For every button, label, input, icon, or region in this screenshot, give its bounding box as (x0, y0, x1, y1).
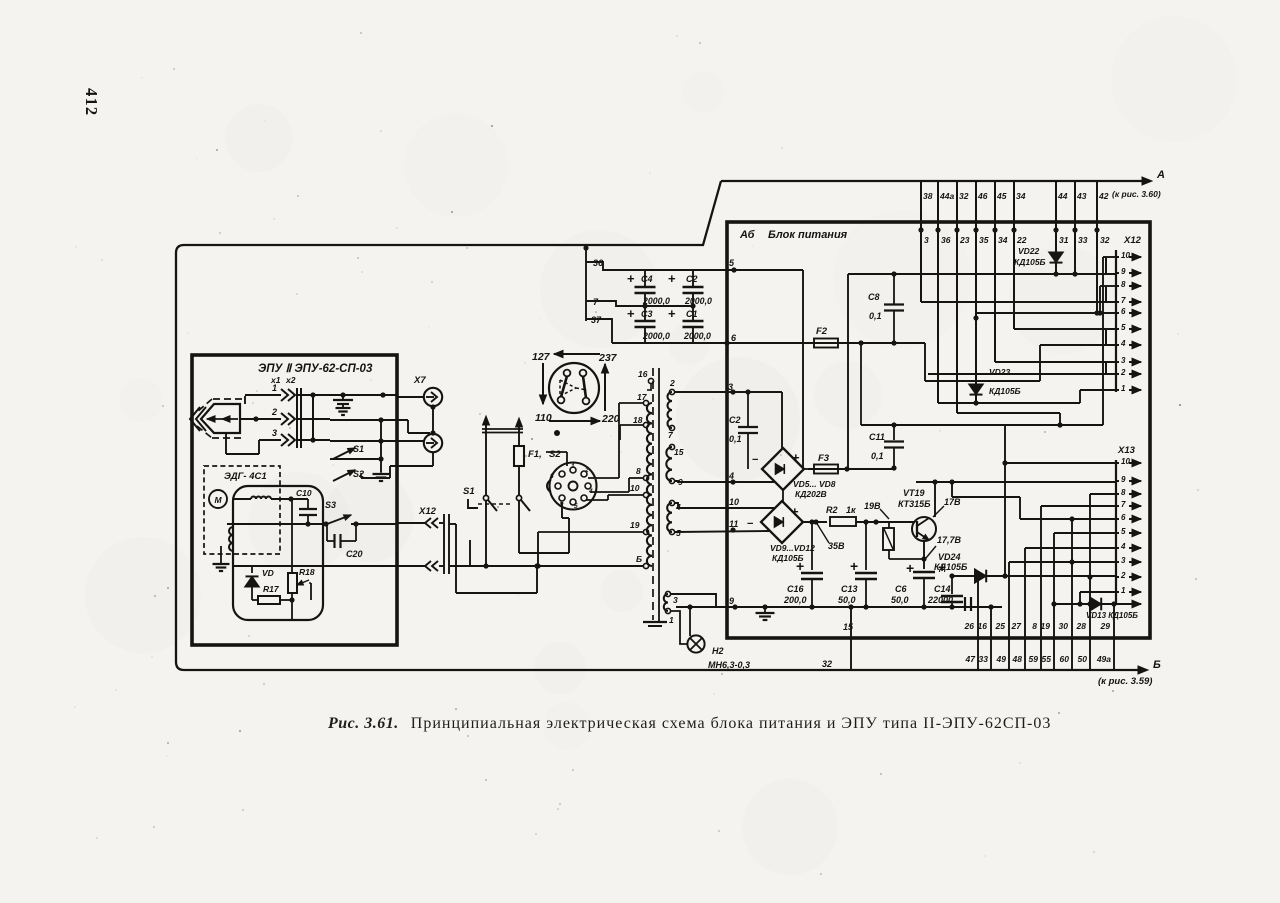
svg-text:Х13: Х13 (1117, 445, 1136, 456)
svg-text:42: 42 (1098, 191, 1109, 201)
svg-text:ЭДГ- 4С1: ЭДГ- 4С1 (224, 471, 267, 482)
svg-text:44: 44 (1057, 191, 1068, 201)
svg-text:4: 4 (1120, 542, 1126, 551)
svg-text:59: 59 (1029, 654, 1039, 664)
svg-text:х2: х2 (285, 375, 296, 385)
svg-text:10: 10 (630, 483, 640, 493)
svg-text:17В: 17В (944, 497, 961, 507)
svg-text:35В: 35В (828, 541, 845, 551)
svg-text:45: 45 (996, 191, 1007, 201)
svg-text:30: 30 (1059, 621, 1069, 631)
svg-text:+: + (938, 559, 946, 575)
svg-text:+: + (668, 271, 676, 286)
svg-text:34: 34 (1016, 191, 1026, 201)
svg-text:60: 60 (1060, 654, 1070, 664)
svg-text:КД202В: КД202В (795, 489, 827, 499)
svg-text:10: 10 (729, 497, 739, 507)
svg-text:50: 50 (1078, 654, 1088, 664)
svg-text:VT19: VT19 (903, 488, 925, 498)
svg-text:F3: F3 (818, 453, 830, 464)
svg-text:6: 6 (1121, 513, 1126, 522)
svg-text:49: 49 (996, 654, 1007, 664)
svg-text:27: 27 (1011, 621, 1023, 631)
svg-text:+: + (850, 558, 858, 574)
svg-text:48: 48 (1012, 654, 1023, 664)
svg-text:(к рис. 3.60): (к рис. 3.60) (1112, 189, 1161, 199)
svg-text:8: 8 (1121, 488, 1126, 497)
svg-text:34: 34 (998, 235, 1008, 245)
svg-text:9: 9 (1121, 267, 1126, 276)
svg-text:С14: С14 (934, 584, 951, 594)
svg-text:Б: Б (1153, 659, 1161, 671)
svg-text:19: 19 (1041, 621, 1051, 631)
svg-text:2: 2 (1120, 368, 1126, 377)
svg-text:50,0: 50,0 (838, 595, 856, 605)
svg-text:3: 3 (1121, 556, 1126, 565)
svg-text:8: 8 (1121, 280, 1126, 289)
svg-text:16: 16 (638, 369, 648, 379)
svg-text:+: + (668, 306, 676, 321)
svg-text:С13: С13 (841, 584, 858, 594)
svg-text:38: 38 (923, 191, 933, 201)
svg-text:25: 25 (995, 621, 1006, 631)
svg-text:17,7В: 17,7В (937, 535, 962, 545)
svg-text:8: 8 (1032, 621, 1037, 631)
svg-text:7: 7 (1121, 500, 1126, 509)
svg-text:10: 10 (1121, 457, 1130, 466)
svg-text:Х12: Х12 (418, 506, 437, 517)
svg-text:220: 220 (601, 413, 620, 425)
svg-text:8: 8 (636, 466, 641, 476)
svg-text:S1: S1 (463, 486, 475, 497)
svg-text:32: 32 (959, 191, 969, 201)
svg-text:2: 2 (584, 467, 589, 474)
svg-text:46: 46 (977, 191, 988, 201)
svg-text:F1,: F1, (528, 449, 542, 460)
svg-text:+: + (796, 558, 804, 574)
svg-text:6: 6 (1121, 307, 1126, 316)
svg-text:М: М (214, 495, 222, 505)
svg-text:С6: С6 (895, 584, 907, 594)
svg-text:R17: R17 (263, 584, 280, 594)
svg-text:5: 5 (1121, 323, 1126, 332)
svg-text:44а: 44а (939, 191, 954, 201)
svg-text:200,0: 200,0 (783, 595, 807, 605)
svg-text:2: 2 (1120, 571, 1126, 580)
svg-text:55: 55 (1042, 654, 1052, 664)
svg-text:1: 1 (1121, 586, 1126, 595)
svg-text:35: 35 (979, 235, 989, 245)
svg-text:3: 3 (1121, 356, 1126, 365)
svg-text:R2: R2 (826, 505, 838, 515)
svg-text:+: + (906, 560, 914, 576)
svg-text:127: 127 (532, 351, 551, 363)
svg-text:5: 5 (1121, 527, 1126, 536)
svg-text:28: 28 (1076, 621, 1087, 631)
svg-text:19В: 19В (864, 501, 881, 511)
svg-text:VD5... VD8: VD5... VD8 (793, 479, 836, 489)
svg-text:6: 6 (560, 500, 564, 507)
svg-text:КТ315Б: КТ315Б (898, 499, 931, 509)
svg-text:1: 1 (669, 615, 674, 625)
svg-text:9: 9 (1121, 475, 1126, 484)
svg-text:S2: S2 (549, 449, 561, 460)
svg-text:2000,0: 2000,0 (642, 331, 670, 341)
svg-text:Х7: Х7 (413, 375, 426, 386)
svg-text:412: 412 (82, 88, 101, 116)
svg-text:4: 4 (1120, 339, 1126, 348)
svg-text:0,1: 0,1 (871, 451, 884, 461)
svg-text:2: 2 (669, 378, 675, 388)
svg-text:110: 110 (535, 412, 552, 424)
svg-text:ЭПУ Ⅱ ЭПУ-62-СП-03: ЭПУ Ⅱ ЭПУ-62-СП-03 (258, 363, 373, 375)
svg-text:1: 1 (571, 463, 575, 470)
svg-text:F2: F2 (816, 326, 828, 337)
svg-text:VD9...VD12: VD9...VD12 (770, 543, 815, 553)
svg-text:19: 19 (630, 520, 640, 530)
svg-text:16: 16 (978, 621, 988, 631)
svg-text:2: 2 (271, 407, 277, 417)
svg-text:Х12: Х12 (1123, 235, 1142, 246)
svg-text:МН6,3-0,3: МН6,3-0,3 (708, 660, 750, 670)
svg-text:С2: С2 (686, 274, 698, 284)
svg-text:2000,0: 2000,0 (684, 296, 712, 306)
svg-text:−: − (747, 518, 753, 530)
svg-text:32: 32 (1100, 235, 1110, 245)
svg-text:С11: С11 (869, 432, 885, 442)
svg-text:С16: С16 (787, 584, 805, 594)
svg-text:29: 29 (1100, 621, 1111, 631)
svg-text:10: 10 (1121, 251, 1130, 260)
svg-text:26: 26 (964, 621, 975, 631)
svg-text:Н2: Н2 (712, 646, 724, 656)
svg-text:237: 237 (598, 352, 618, 364)
svg-text:С1: С1 (686, 309, 698, 319)
svg-text:1к: 1к (846, 505, 856, 515)
svg-text:+: + (791, 504, 799, 519)
svg-text:Аб: Аб (739, 229, 756, 241)
svg-text:31: 31 (1059, 235, 1069, 245)
svg-text:VD23: VD23 (989, 367, 1011, 377)
svg-text:7: 7 (1121, 296, 1126, 305)
svg-text:VD13 КД105Б: VD13 КД105Б (1086, 611, 1138, 620)
svg-text:Рис. 3.61. Принципиальная элек: Рис. 3.61. Принципиальная электрическая … (327, 715, 1051, 732)
svg-text:1: 1 (272, 383, 277, 393)
svg-text:9: 9 (729, 596, 734, 606)
svg-text:47: 47 (965, 654, 977, 664)
svg-text:А: А (1156, 169, 1165, 181)
svg-text:5: 5 (574, 503, 578, 510)
svg-text:33: 33 (979, 654, 989, 664)
svg-text:5: 5 (676, 528, 681, 538)
svg-text:3: 3 (272, 428, 277, 438)
svg-text:33: 33 (1078, 235, 1088, 245)
svg-text:Блок питания: Блок питания (768, 229, 848, 241)
svg-text:15: 15 (674, 447, 684, 457)
svg-text:15: 15 (843, 622, 854, 632)
svg-text:VD: VD (262, 568, 274, 578)
svg-text:КД105Б: КД105Б (989, 386, 1021, 396)
svg-text:49а: 49а (1096, 654, 1111, 664)
svg-text:1: 1 (1121, 384, 1126, 393)
svg-text:32: 32 (822, 659, 832, 669)
svg-text:3: 3 (673, 595, 678, 605)
svg-text:+: + (792, 450, 800, 465)
svg-text:22: 22 (1016, 235, 1027, 245)
svg-text:8: 8 (550, 473, 554, 480)
svg-text:22000: 22000 (927, 595, 953, 605)
svg-text:18: 18 (633, 415, 643, 425)
svg-text:43: 43 (1076, 191, 1087, 201)
svg-text:(к рис. 3.59): (к рис. 3.59) (1098, 676, 1152, 687)
svg-text:50,0: 50,0 (891, 595, 909, 605)
svg-text:Б: Б (636, 554, 642, 564)
